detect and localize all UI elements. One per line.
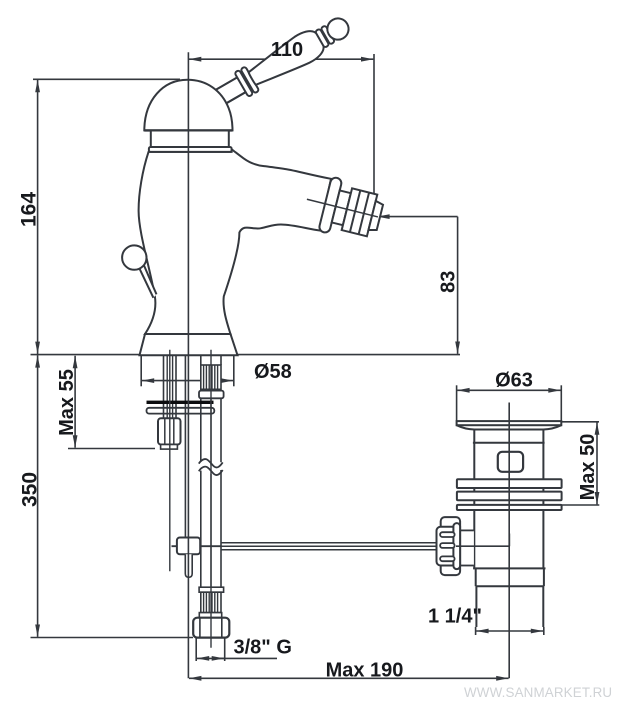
knurl bump 1 xyxy=(440,532,455,537)
nut facet line 1 xyxy=(164,418,166,444)
drain lower section line xyxy=(476,585,544,587)
aerator block divider 2 xyxy=(359,193,369,235)
dimension Max 50 line xyxy=(596,422,598,504)
lift rod lower end xyxy=(185,554,192,577)
hex nut facet 2 xyxy=(221,619,223,638)
dimension 3/8 line and leader xyxy=(197,657,277,659)
dimension O58 line xyxy=(142,380,233,382)
svg-text:Ø63: Ø63 xyxy=(495,370,533,392)
handle collar ring 1 xyxy=(234,70,253,97)
dimension Max 50 bottom tick xyxy=(560,504,600,506)
dimension 3/8 right arrow xyxy=(212,657,224,659)
dimension Max 55 line xyxy=(74,356,76,448)
dimension 1 1/4 right extension xyxy=(543,627,545,635)
svg-text:Ø58: Ø58 xyxy=(254,361,292,383)
handle collar ring 2 xyxy=(240,66,259,93)
svg-text:110: 110 xyxy=(271,39,303,61)
drain body bottom line xyxy=(473,567,545,569)
dimension O63 line xyxy=(457,389,561,391)
drain centerline xyxy=(508,403,510,679)
bonnet ring xyxy=(149,147,232,152)
knurl bump 3 xyxy=(440,556,455,561)
aerator block divider 1 xyxy=(350,190,360,232)
drain ring 2 xyxy=(457,492,562,501)
dimension 3/8 right extension xyxy=(224,638,226,661)
aerator block xyxy=(342,188,378,236)
rod clamp xyxy=(177,538,200,555)
knurled nut right capsule xyxy=(453,523,460,569)
pop-up rod thin section xyxy=(172,545,222,547)
black gasket bar xyxy=(147,401,214,404)
pop-up rod thick bottom xyxy=(221,549,441,551)
drain body step line xyxy=(473,442,545,444)
dimension O63 right extension xyxy=(560,385,562,420)
tailpiece wall left xyxy=(475,586,477,627)
supply tube threaded block xyxy=(201,365,221,389)
dimension O58 right extension xyxy=(233,356,235,386)
dimension 3/8 left extension xyxy=(195,638,197,661)
dimension Max 55 bottom tick xyxy=(68,448,155,450)
svg-text:Max 190: Max 190 xyxy=(326,660,404,682)
hex nut facet 1 xyxy=(199,619,201,638)
handle ball finial xyxy=(323,15,352,44)
faucet body and spout arm outline xyxy=(139,149,331,334)
handle stem xyxy=(211,75,249,107)
dimension O58 left extension xyxy=(140,356,142,386)
drain ring 3 xyxy=(457,505,562,510)
supply tube wall left with break xyxy=(200,398,202,462)
lever stem xyxy=(139,263,157,297)
dimension 110 right extension line xyxy=(373,54,375,195)
spout centerline xyxy=(307,199,378,217)
dimension 1 1/4 line xyxy=(476,630,543,632)
dimension 164 line xyxy=(37,80,39,354)
nut facet line 2 xyxy=(173,418,175,444)
svg-text:Max 55: Max 55 xyxy=(56,369,78,436)
lift rod line xyxy=(184,355,186,538)
knurled pivot nut outer xyxy=(441,517,460,575)
supply tube centerline xyxy=(210,350,212,648)
svg-text:3/8" G: 3/8" G xyxy=(234,637,292,659)
handle neck ring 2 xyxy=(321,25,335,44)
lower collar 2 xyxy=(199,613,221,618)
under-nut collar xyxy=(161,445,178,450)
drain square hole xyxy=(498,452,523,472)
pop-up rod thick top xyxy=(221,542,441,544)
dimension 83 horizontal leader to spout tip xyxy=(377,216,457,218)
rod inside drain xyxy=(456,545,509,547)
aerator tip xyxy=(368,201,383,232)
washer xyxy=(147,408,215,414)
drain flange xyxy=(457,421,562,425)
dimension Max 190 line xyxy=(189,677,509,679)
svg-text:83: 83 xyxy=(438,271,460,293)
cap neck xyxy=(151,132,229,148)
dimension 1 1/4 left extension xyxy=(475,627,477,635)
lower tube collar xyxy=(199,587,224,592)
drain lower section wall right xyxy=(543,568,545,586)
mounting plane line xyxy=(31,354,461,356)
faucet centerline xyxy=(187,52,189,678)
dimension 164 top tick at dome apex xyxy=(33,78,180,80)
knurled pivot nut wide part xyxy=(437,527,457,566)
dimension Max 50 top tick xyxy=(561,421,599,423)
stud centerline xyxy=(169,350,171,571)
faucet dome cap xyxy=(144,80,232,131)
mounting stud nut xyxy=(158,418,181,444)
supply tube collar xyxy=(199,391,224,399)
lower threaded block xyxy=(201,592,221,612)
rod end tick xyxy=(508,534,510,547)
dimension 83 vertical line xyxy=(457,217,459,354)
stud inner line 1 xyxy=(166,355,168,419)
cap bottom edge xyxy=(144,129,232,131)
svg-text:WWW.SANMARKET.RU: WWW.SANMARKET.RU xyxy=(464,685,612,700)
handle U-lever group xyxy=(208,11,355,113)
drain body wall left xyxy=(473,430,475,569)
aerator band xyxy=(332,190,351,225)
dimension 350 bottom tick xyxy=(31,637,194,639)
drain flange underside xyxy=(457,425,562,429)
svg-text:164: 164 xyxy=(18,192,41,227)
aerator group xyxy=(300,172,387,245)
tailpiece wall right xyxy=(542,586,544,627)
handle neck ring 1 xyxy=(315,29,329,48)
knurl bump 2 xyxy=(440,543,455,548)
dimension 110 line xyxy=(189,58,374,60)
drain lower section wall left xyxy=(475,568,477,586)
supply tube wall right upper xyxy=(220,355,222,366)
handle grip xyxy=(244,26,328,92)
pivot boss xyxy=(460,530,474,565)
svg-text:Max 50: Max 50 xyxy=(577,434,599,501)
tube break wave 1 xyxy=(199,459,223,467)
hex nut 3/8 xyxy=(193,618,229,638)
stud wall left xyxy=(163,355,165,419)
drain ring 1 xyxy=(457,479,562,488)
supply tube wall left upper xyxy=(200,355,202,366)
pop-up rod center xyxy=(221,545,441,547)
tube break wave 2 xyxy=(199,467,223,475)
stud wall right xyxy=(175,355,177,419)
base xyxy=(140,334,238,355)
dimension 350 line xyxy=(37,355,39,637)
dimension O63 left extension xyxy=(456,385,458,420)
lever ball xyxy=(122,245,146,269)
spout collar ring xyxy=(318,177,342,234)
drain body wall right xyxy=(542,430,544,569)
stud inner line 2 xyxy=(172,355,174,419)
svg-text:350: 350 xyxy=(19,472,42,507)
svg-text:1 1/4": 1 1/4" xyxy=(428,606,482,628)
